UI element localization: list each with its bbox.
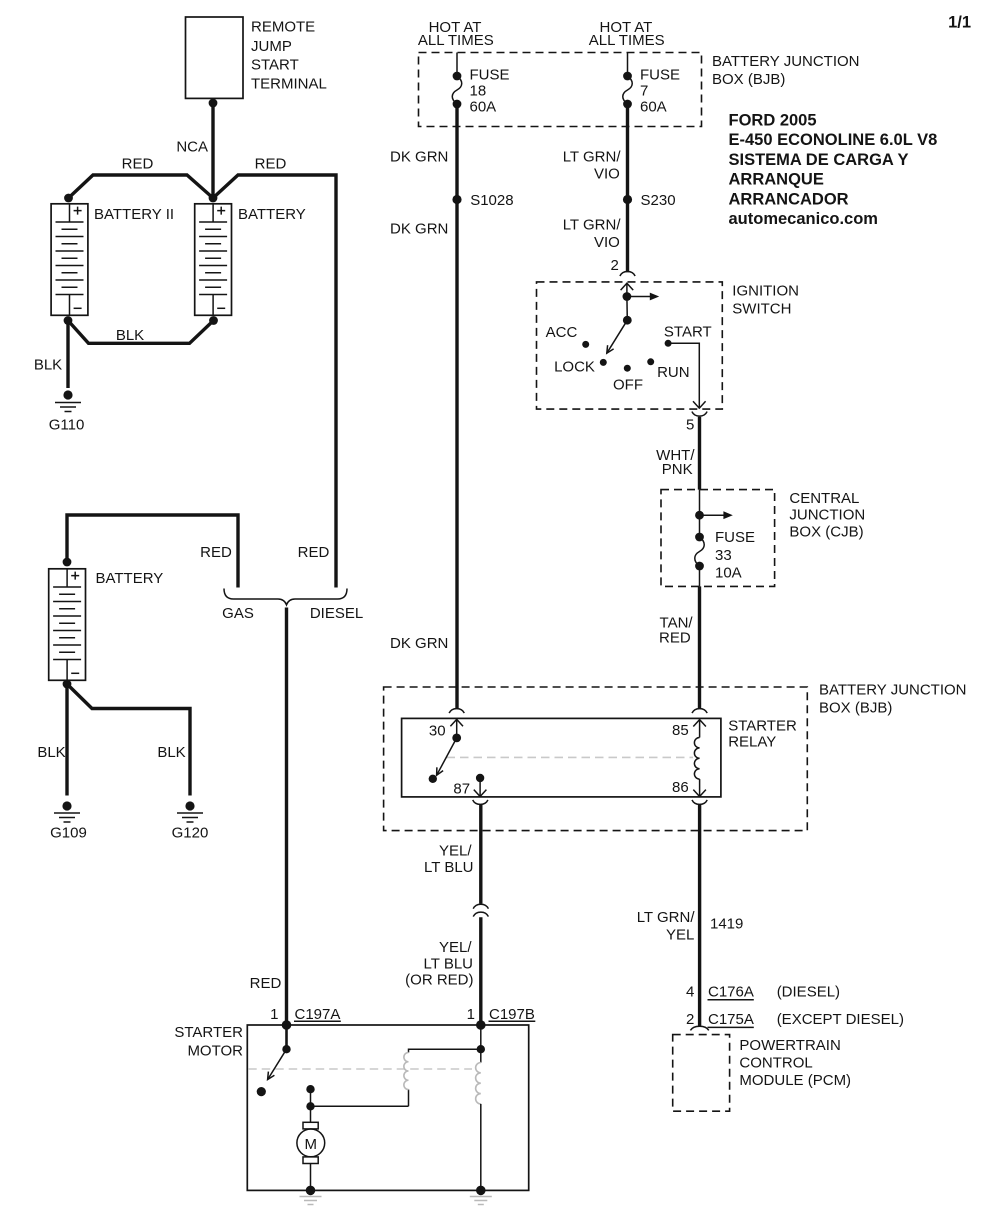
svg-text:FUSE: FUSE: [715, 529, 755, 546]
svg-text:E-450 ECONOLINE 6.0L V8: E-450 ECONOLINE 6.0L V8: [729, 131, 938, 149]
svg-text:86: 86: [672, 779, 689, 796]
svg-text:C175A: C175A: [708, 1011, 754, 1028]
svg-text:1419: 1419: [710, 915, 743, 932]
svg-text:BOX (BJB): BOX (BJB): [819, 700, 892, 717]
svg-text:RED: RED: [659, 630, 691, 647]
svg-text:automecanico.com: automecanico.com: [729, 210, 878, 228]
svg-text:YEL: YEL: [666, 927, 694, 944]
svg-text:CONTROL: CONTROL: [739, 1055, 812, 1072]
svg-text:ACC: ACC: [546, 324, 578, 341]
svg-text:CENTRAL: CENTRAL: [789, 490, 859, 507]
svg-text:2: 2: [686, 1011, 694, 1028]
svg-text:BATTERY JUNCTION: BATTERY JUNCTION: [819, 682, 967, 699]
svg-text:FUSE: FUSE: [470, 67, 510, 84]
svg-text:VIO: VIO: [594, 165, 620, 182]
svg-text:MODULE (PCM): MODULE (PCM): [739, 1072, 851, 1089]
svg-text:RED: RED: [122, 156, 154, 173]
svg-text:2: 2: [610, 257, 618, 274]
svg-text:PNK: PNK: [662, 461, 693, 478]
svg-text:BATTERY JUNCTION: BATTERY JUNCTION: [712, 53, 860, 70]
svg-text:C176A: C176A: [708, 984, 754, 1001]
svg-text:LT GRN/: LT GRN/: [563, 148, 622, 165]
svg-text:ARRANQUE: ARRANQUE: [729, 171, 824, 189]
svg-text:LT GRN/: LT GRN/: [563, 217, 622, 234]
svg-text:POWERTRAIN: POWERTRAIN: [739, 1037, 840, 1054]
svg-text:SISTEMA DE CARGA Y: SISTEMA DE CARGA Y: [729, 151, 909, 169]
svg-text:30: 30: [429, 722, 446, 739]
svg-text:RED: RED: [298, 544, 330, 561]
svg-text:G110: G110: [49, 417, 85, 434]
svg-text:LOCK: LOCK: [554, 359, 595, 376]
svg-text:IGNITION: IGNITION: [732, 282, 799, 299]
svg-text:RED: RED: [255, 156, 287, 173]
svg-text:DK GRN: DK GRN: [390, 635, 448, 652]
svg-text:M: M: [305, 1136, 318, 1153]
svg-text:RED: RED: [250, 975, 282, 992]
svg-text:JUNCTION: JUNCTION: [789, 507, 865, 524]
svg-text:RED: RED: [200, 544, 232, 561]
svg-text:LT BLU: LT BLU: [424, 955, 473, 972]
svg-text:G109: G109: [50, 824, 87, 841]
svg-text:BOX (BJB): BOX (BJB): [712, 71, 785, 88]
svg-text:S1028: S1028: [470, 192, 513, 209]
svg-text:DK GRN: DK GRN: [390, 221, 448, 238]
svg-text:LT BLU: LT BLU: [424, 859, 473, 876]
svg-text:RELAY: RELAY: [728, 733, 776, 750]
svg-text:5: 5: [686, 417, 694, 434]
svg-text:4: 4: [686, 984, 694, 1001]
svg-text:GAS: GAS: [222, 605, 254, 622]
svg-text:BATTERY II: BATTERY II: [94, 206, 174, 223]
svg-text:(OR RED): (OR RED): [405, 972, 473, 989]
svg-text:C197A: C197A: [295, 1006, 341, 1023]
svg-text:START: START: [251, 57, 299, 74]
svg-text:YEL/: YEL/: [439, 843, 472, 860]
svg-text:1/1: 1/1: [948, 14, 971, 32]
svg-text:ARRANCADOR: ARRANCADOR: [729, 190, 849, 208]
svg-text:MOTOR: MOTOR: [187, 1043, 243, 1060]
svg-text:18: 18: [470, 82, 487, 99]
svg-text:33: 33: [715, 547, 732, 564]
svg-text:1: 1: [270, 1006, 278, 1023]
svg-text:NCA: NCA: [176, 139, 208, 156]
svg-text:YEL/: YEL/: [439, 939, 472, 956]
svg-text:RUN: RUN: [657, 364, 690, 381]
svg-text:60A: 60A: [640, 98, 667, 115]
svg-text:85: 85: [672, 722, 689, 739]
svg-text:10A: 10A: [715, 565, 742, 582]
svg-text:BLK: BLK: [34, 357, 62, 374]
svg-text:STARTER: STARTER: [728, 717, 797, 734]
svg-text:DK GRN: DK GRN: [390, 149, 448, 166]
svg-text:ALL TIMES: ALL TIMES: [418, 32, 494, 49]
svg-text:JUMP: JUMP: [251, 38, 292, 55]
svg-text:OFF: OFF: [613, 377, 643, 394]
svg-text:DIESEL: DIESEL: [310, 605, 363, 622]
svg-text:LT GRN/: LT GRN/: [637, 909, 696, 926]
svg-text:FORD 2005: FORD 2005: [729, 112, 817, 130]
svg-text:C197B: C197B: [489, 1006, 535, 1023]
svg-text:TERMINAL: TERMINAL: [251, 76, 327, 93]
svg-text:60A: 60A: [470, 98, 497, 115]
svg-text:BATTERY: BATTERY: [96, 570, 164, 587]
svg-text:87: 87: [453, 780, 470, 797]
svg-text:(EXCEPT DIESEL): (EXCEPT DIESEL): [777, 1011, 904, 1028]
svg-text:BATTERY: BATTERY: [238, 206, 306, 223]
svg-text:BLK: BLK: [37, 744, 65, 761]
svg-text:BLK: BLK: [157, 744, 185, 761]
svg-text:(DIESEL): (DIESEL): [777, 984, 840, 1001]
svg-text:STARTER: STARTER: [174, 1024, 243, 1041]
svg-text:START: START: [664, 323, 712, 340]
svg-text:VIO: VIO: [594, 234, 620, 251]
svg-text:7: 7: [640, 82, 648, 99]
svg-text:G120: G120: [172, 824, 209, 841]
svg-text:REMOTE: REMOTE: [251, 19, 315, 36]
svg-text:BLK: BLK: [116, 327, 144, 344]
svg-text:S230: S230: [641, 192, 676, 209]
svg-text:ALL TIMES: ALL TIMES: [589, 32, 665, 49]
svg-text:BOX (CJB): BOX (CJB): [789, 523, 863, 540]
svg-text:SWITCH: SWITCH: [732, 300, 791, 317]
svg-text:1: 1: [467, 1006, 475, 1023]
svg-text:FUSE: FUSE: [640, 67, 680, 84]
